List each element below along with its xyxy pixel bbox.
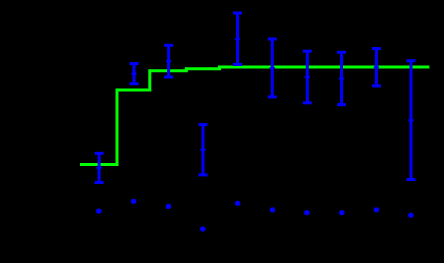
error bar 4: [199, 125, 208, 175]
error bar 8: [337, 52, 346, 104]
error bar 3: [164, 45, 173, 77]
error bar 9: [372, 49, 381, 86]
error bar 6: [268, 39, 277, 97]
error bar 5: [233, 13, 242, 65]
bottom dot 1: [96, 209, 102, 214]
error bar 7: [303, 51, 312, 103]
bottom dot 5: [235, 201, 241, 206]
bottom dot 2: [131, 199, 137, 204]
error bar 1: [95, 153, 104, 182]
bottom dot 6: [270, 207, 276, 212]
bottom dot 8: [339, 210, 345, 215]
error bar 10: [407, 61, 416, 180]
bottom dot 10: [408, 213, 414, 218]
bottom dot 9: [374, 207, 380, 212]
bottom dot 4: [200, 226, 206, 231]
green step fit line: [80, 67, 429, 165]
bottom dot 3: [166, 204, 172, 209]
error bar 2: [130, 64, 139, 84]
bottom dot 7: [304, 210, 310, 215]
